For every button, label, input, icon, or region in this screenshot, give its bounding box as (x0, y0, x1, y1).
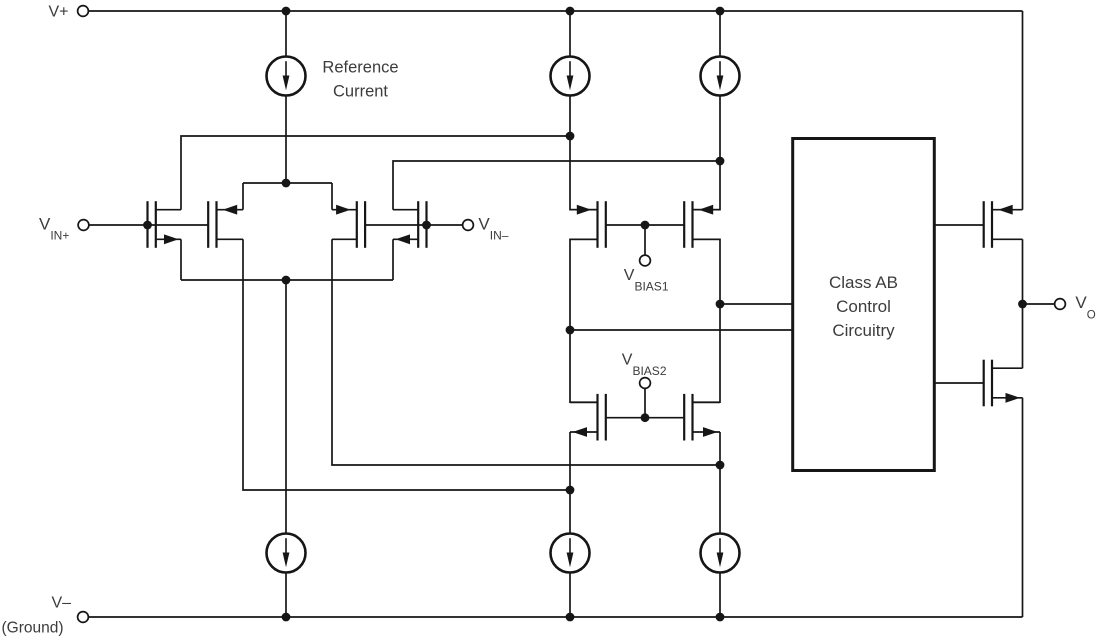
terminal V+ (78, 6, 89, 17)
wire: Q3 source up to PMOS tail (331, 183, 333, 210)
wire: top rail to I2 (569, 11, 571, 57)
node: top rail / I1 (282, 7, 291, 16)
node: rail / I4 (282, 613, 291, 622)
node: NMOS pair tail (282, 276, 291, 285)
wire: box to Q9 gate (934, 224, 983, 226)
wire: output node to VO terminal (1023, 303, 1055, 305)
node: PMOS pair tail (282, 179, 291, 188)
wire: V+ rail (89, 10, 1023, 12)
node: class AB input 2 tap (566, 326, 575, 335)
current source I1 (reference current) (267, 57, 306, 96)
transistor Q10 (NMOS output) (984, 360, 1023, 407)
wire: top rail to I1 (285, 11, 287, 57)
node: rail / I6 (716, 613, 725, 622)
wire: Q6 drain down to Q8 drain (693, 239, 721, 402)
wire: tap to Class AB box (lower) (570, 329, 793, 331)
wire: Q2 source up to PMOS tail (242, 183, 244, 210)
node: wire B joins I3 column (716, 157, 725, 166)
transistor Q7 (NMOS cascode left) (570, 394, 606, 441)
wire: Q7 source down to I5 (569, 432, 571, 534)
wire: Q8 source down to I6 (719, 432, 721, 534)
wire: Q1 source down to NMOS tail (180, 239, 182, 280)
transistor Q1 (NMOS input, VIN+) (148, 201, 182, 248)
terminal VBIAS1 (640, 255, 651, 266)
node: class AB input 1 tap (716, 300, 725, 309)
wire: Q1 drain up to wire A (181, 136, 570, 210)
wire: Q9 drain to Q10 drain (1022, 239, 1024, 368)
terminal VBIAS2 (640, 378, 651, 389)
wire: top rail to I3 (719, 11, 721, 57)
wire: V-/ground rail (89, 616, 1023, 618)
svg-text:Current: Current (333, 83, 388, 101)
node: output node (1018, 300, 1027, 309)
current source I3 (701, 57, 740, 96)
transistor Q2 (PMOS input, VIN+) (208, 201, 243, 248)
transistor Q4 (NMOS input, VIN-) (393, 201, 427, 248)
current source I4 (267, 534, 306, 573)
node: rail / I5 (566, 613, 575, 622)
wire: Q4 source down to NMOS tail (392, 239, 394, 280)
svg-text:Reference: Reference (322, 59, 398, 77)
node: Q3 drain joins I6 column (716, 461, 725, 470)
wire: VBIAS2 stub (644, 388, 646, 417)
transistor Q9 (PMOS output) (984, 201, 1023, 248)
current source I6 (701, 534, 740, 573)
svg-text:Control: Control (836, 297, 891, 316)
terminal VIN- (463, 220, 474, 231)
node: top rail / I2 (566, 7, 575, 16)
svg-text:Circuitry: Circuitry (832, 321, 895, 340)
wire: Q5 drain down to Q7 drain (570, 239, 598, 402)
transistor Q8 (NMOS cascode right) (684, 394, 720, 441)
wire: PMOS pair tail bus (243, 182, 332, 184)
wire: Q2 drain down and right to I5 column (243, 239, 570, 490)
wire: Q4 drain up to wire B (393, 161, 720, 210)
node: Q2 drain joins I5 column (566, 486, 575, 495)
wire: I4 to rail (285, 572, 287, 617)
node: VBIAS1 gate node (641, 221, 650, 230)
wire: box to Q10 gate (934, 382, 983, 384)
terminal VO (1055, 299, 1066, 310)
wire: VIN- to gates of Q3/Q4 (365, 224, 463, 226)
current source I5 (551, 534, 590, 573)
wire: NMOS pair tail bus (181, 279, 393, 281)
wire: I5 to rail (569, 572, 571, 617)
terminal VIN+ (78, 220, 89, 231)
wire: I3 down to cascode Q6 source (693, 95, 721, 210)
node: gate of Q1 (143, 221, 152, 230)
node: VBIAS2 gate node (641, 413, 650, 422)
wire: VIN+ to gates of Q1/Q2 (89, 224, 208, 226)
wire: I6 to rail (719, 572, 721, 617)
block: Class AB Control Circuitry (793, 139, 935, 471)
terminal V- (Ground) (78, 612, 89, 623)
transistor Q6 (PMOS cascode right) (684, 201, 720, 248)
transistor Q5 (PMOS cascode left) (570, 201, 606, 248)
svg-text:(Ground): (Ground) (2, 620, 64, 637)
wire: VBIAS1 stub (644, 225, 646, 255)
wire: tap to Class AB box (upper) (720, 303, 793, 305)
wire: Q5-Q6 gate bus (606, 224, 684, 226)
current source I2 (551, 57, 590, 96)
transistor Q3 (PMOS input, VIN-) (332, 201, 365, 248)
svg-text:V–: V– (52, 595, 72, 612)
wire: V+ rail down to Q9 source (1022, 11, 1024, 210)
wire: Q3 drain down and right to I6 column (332, 239, 720, 465)
svg-text:V+: V+ (49, 4, 69, 21)
node: wire A joins I2 column (566, 132, 575, 141)
wire: NMOS tail down to I4 (285, 280, 287, 534)
node: gate of Q4 (422, 221, 431, 230)
wire: I1 to PMOS pair tail (285, 95, 287, 183)
wire: I2 down to cascode Q5 source (570, 95, 598, 210)
node: top rail / I3 (716, 7, 725, 16)
svg-text:Class AB: Class AB (829, 273, 898, 292)
wire: Q7-Q8 gate bus (606, 417, 684, 419)
wire: Q10 source down to rail (1022, 398, 1024, 617)
